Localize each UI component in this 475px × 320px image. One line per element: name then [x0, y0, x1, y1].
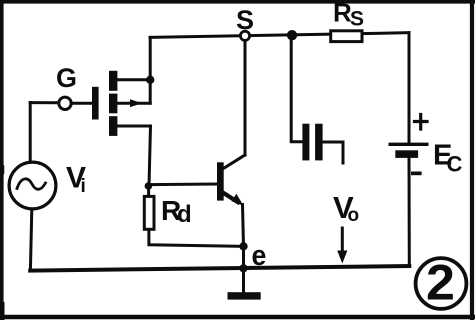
svg-text:S: S: [350, 8, 364, 31]
resistor Rd: [144, 196, 154, 229]
wire rail to ground: [242, 270, 245, 293]
border frame bottom-left corner blob: [0, 305, 5, 318]
wire collector vertical to S: [244, 41, 247, 155]
wire G lead right: [71, 102, 92, 105]
wire base lead: [148, 183, 217, 187]
border frame top: [0, 0, 474, 4]
wire capacitor to Vo corner: [323, 142, 344, 163]
battery Ec top plate: [389, 143, 429, 146]
border frame bottom: [0, 315, 475, 319]
battery plus sign: [415, 115, 428, 130]
svg-text:d: d: [177, 201, 192, 228]
svg-text:C: C: [447, 152, 463, 177]
node dot drain junction: [146, 76, 154, 84]
svg-text:G: G: [56, 63, 77, 93]
node dot e: [239, 242, 247, 250]
wire e to rail: [242, 246, 245, 269]
wire mosfet source lead: [117, 125, 151, 128]
svg-text:2: 2: [426, 254, 455, 310]
wire node to Rd: [147, 186, 150, 196]
wire bottom rail: [30, 266, 409, 271]
ground bar: [228, 292, 261, 299]
wire Rd bottom: [149, 231, 244, 246]
wire source down to node: [149, 126, 151, 186]
wire top rail: [150, 33, 409, 38]
node G open circle: [59, 97, 71, 109]
wire mosfet body lead: [117, 102, 150, 105]
wire emitter vertical: [243, 205, 244, 247]
wire left vertical upper (G corner to Vi top): [29, 103, 32, 162]
wire junction down to capacitor: [291, 36, 302, 142]
wire right vertical lower: [408, 158, 411, 266]
mosfet drain channel bar: [109, 71, 117, 91]
Vo arrowhead: [337, 251, 347, 264]
wire Vo arrow shaft: [341, 228, 344, 255]
transistor collector diagonal: [223, 155, 246, 169]
transistor base bar: [217, 162, 224, 200]
capacitor right plate: [315, 124, 323, 161]
node dot top rail junction: [287, 30, 297, 40]
mosfet source channel bar: [109, 116, 117, 136]
svg-text:i: i: [81, 176, 86, 197]
wire drain dot to body lead: [149, 80, 152, 103]
node dot gate-divider junction: [145, 182, 153, 190]
resistor Rs: [331, 31, 362, 42]
battery minus sign: [411, 172, 422, 176]
svg-text:S: S: [236, 5, 254, 35]
figure number circle: [416, 258, 467, 309]
border frame right: [470, 0, 474, 319]
left edge tick: [0, 168, 4, 173]
transistor emitter diagonal: [223, 192, 239, 202]
mosfet body arrow: [130, 99, 142, 107]
wire G lead left: [30, 101, 58, 104]
wire top-left corner down to drain dot: [149, 37, 152, 80]
transistor emitter arrow: [232, 194, 244, 206]
node S open circle: [240, 31, 249, 40]
mosfet body channel bar: [109, 94, 117, 114]
svg-text:o: o: [348, 205, 360, 226]
source Vi circle: [9, 162, 56, 209]
source Vi sine wave: [17, 179, 46, 189]
wire right vertical upper: [408, 33, 411, 143]
wire mosfet drain lead: [117, 78, 150, 81]
battery Ec bottom plate: [395, 150, 418, 158]
node dot rail junction: [239, 264, 247, 272]
mosfet gate bar: [92, 87, 99, 120]
svg-text:e: e: [252, 239, 267, 271]
border frame left: [0, 0, 4, 318]
wire left vertical lower (Vi bottom to rail): [30, 209, 31, 271]
capacitor left plate: [302, 124, 309, 161]
